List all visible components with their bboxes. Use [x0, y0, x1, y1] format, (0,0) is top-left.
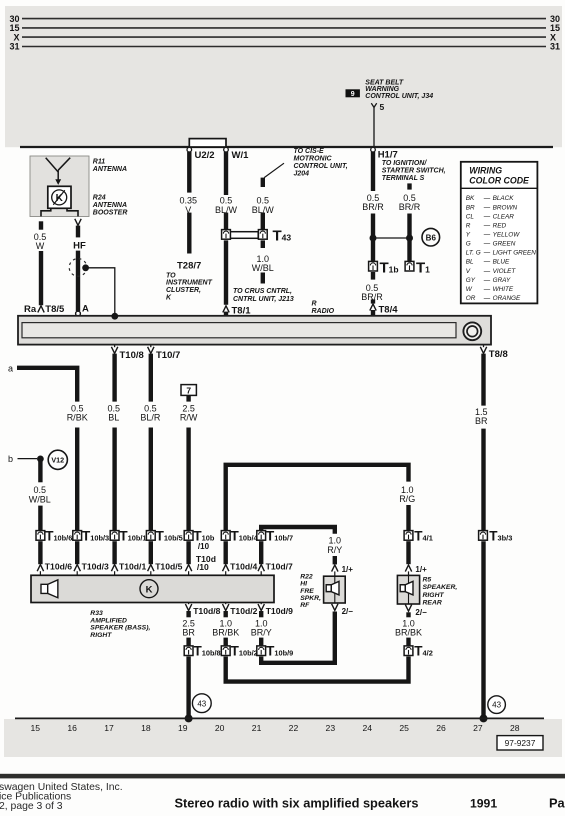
ground ref circle 43 left [192, 694, 211, 713]
power bus line X [22, 36, 546, 38]
wire W/1 upper 0.5 BL/W [224, 152, 228, 195]
svg-text:STARTER SWITCH,: STARTER SWITCH, [382, 168, 446, 175]
node B6 circle [422, 228, 440, 246]
svg-text:OR: OR [466, 295, 476, 302]
connector T10b/10 square [184, 531, 193, 541]
svg-text:28: 28 [510, 723, 520, 733]
svg-text:BR: BR [475, 416, 488, 426]
svg-text:BR/BK: BR/BK [395, 628, 422, 638]
svg-text:BLUE: BLUE [493, 259, 510, 266]
node H1/7 circle [371, 147, 376, 152]
connector bar T43 [230, 232, 258, 239]
wire 1.5 BR lower [481, 541, 485, 716]
wire rows T10b to T10d [40, 541, 261, 564]
svg-text:/10: /10 [197, 562, 209, 572]
ground dot 19 [185, 714, 193, 722]
svg-text:CONTROL UNIT,: CONTROL UNIT, [294, 163, 348, 170]
svg-text:b: b [8, 454, 13, 464]
terminal chevron R22 1/+ [332, 565, 338, 572]
connector T10b/8 square [184, 646, 193, 656]
R22 speaker icon [326, 585, 331, 592]
seat belt warning control unit J34 ref box 9 [346, 89, 360, 98]
svg-text:Ra: Ra [24, 304, 37, 315]
wire into R5 [408, 571, 410, 575]
wire HF upper [76, 226, 80, 238]
wire W/1 lower [224, 240, 228, 304]
svg-text:R/G: R/G [399, 494, 415, 504]
svg-text:18: 18 [141, 723, 151, 733]
svg-text:a: a [8, 364, 13, 374]
wire 1.5 BR mid [481, 429, 485, 531]
junction dot at radio case [111, 313, 118, 320]
R5 speaker icon [400, 585, 405, 592]
wire 1.0 BR/Y lower [259, 638, 263, 646]
ground wire to track 19 [186, 657, 190, 717]
label T10d/10 [196, 554, 216, 572]
svg-text:—: — [483, 213, 491, 220]
wire CIS-E mid [261, 213, 265, 230]
bottom gray band [4, 719, 562, 757]
note to ignition starter switch [382, 160, 446, 182]
legend header [469, 165, 530, 185]
connector T10b/1 square [110, 531, 119, 541]
svg-text:31: 31 [9, 42, 19, 52]
svg-text:—: — [483, 231, 491, 238]
junction dot col2 [406, 235, 413, 242]
wire W/BL upper [38, 459, 42, 482]
connector T4/1 square [404, 531, 413, 541]
svg-text:T10d/8: T10d/8 [193, 606, 220, 616]
wire b horizontal [18, 458, 38, 460]
svg-text:1/+: 1/+ [415, 565, 427, 574]
booster legs [41, 208, 51, 216]
svg-text:T10/7: T10/7 [156, 350, 180, 361]
terminal T8/8 [480, 346, 486, 354]
svg-text:H1/7: H1/7 [378, 150, 398, 161]
svg-text:T8/8: T8/8 [489, 349, 508, 360]
wire U2/2 lower [187, 213, 191, 254]
connector T10b/5 square [146, 531, 155, 541]
wire loop T10b/2 to T4/2 [226, 657, 409, 682]
svg-text:R11: R11 [93, 158, 105, 165]
HF top chevron [75, 219, 81, 226]
track numbers [31, 723, 520, 733]
wire loop R/Y [261, 527, 335, 534]
svg-text:9: 9 [351, 91, 355, 98]
speaker R5 box [397, 575, 419, 604]
svg-text:K: K [56, 193, 64, 204]
svg-text:MOTRONIC: MOTRONIC [294, 156, 333, 163]
R22 through line [334, 576, 336, 603]
label J34 text [365, 79, 433, 100]
svg-text:97-9237: 97-9237 [505, 738, 536, 748]
svg-text:26: 26 [436, 723, 446, 733]
connector bracket U2 above line [189, 139, 226, 147]
svg-text:W/BL: W/BL [29, 494, 51, 504]
connector T10b/3 square [73, 531, 82, 541]
svg-text:ANTENNA: ANTENNA [92, 202, 127, 209]
wire above T4/2 [406, 638, 410, 646]
svg-text:BR: BR [182, 628, 195, 638]
wire 0.5 BL upper [112, 354, 116, 402]
radio knob outer circle [463, 322, 481, 340]
label R RADIO [312, 301, 335, 316]
svg-text:2, page 3 of 3: 2, page 3 of 3 [0, 801, 63, 812]
svg-text:GREEN: GREEN [493, 241, 516, 248]
wire stub to J213 [261, 273, 265, 284]
svg-text:Stereo radio with six amplifie: Stereo radio with six amplified speakers [175, 796, 419, 811]
svg-text:V12: V12 [51, 456, 64, 465]
wire J34 pin5 down [373, 107, 375, 146]
wire U2/2 upper 0.35 V [187, 152, 191, 193]
wire W/BL lower [38, 506, 42, 531]
svg-text:R33: R33 [90, 610, 103, 617]
svg-text:W: W [36, 241, 45, 251]
wire T8/1 stub [224, 312, 228, 316]
wire 0.5 BL/R lower [149, 428, 153, 531]
svg-text:BR: BR [466, 204, 475, 211]
svg-text:TO CRUS CNTRL,: TO CRUS CNTRL, [233, 288, 292, 295]
connector T10b/4 square [221, 531, 230, 541]
svg-text:—: — [483, 241, 491, 248]
svg-text:—: — [483, 250, 491, 257]
svg-text:21: 21 [252, 723, 262, 733]
node U2/2 circle [187, 147, 192, 152]
svg-text:W: W [466, 286, 473, 293]
svg-text:T10/8: T10/8 [120, 350, 144, 361]
svg-text:BR/R: BR/R [399, 202, 421, 212]
junction dot b [37, 456, 44, 463]
svg-text:T10d/6: T10d/6 [45, 561, 72, 571]
svg-text:R24: R24 [93, 194, 106, 201]
note to CIS-E Motronic [294, 148, 348, 178]
terminal chevron T8/4 [370, 304, 376, 311]
main separator line [20, 146, 553, 148]
terminal chevron R22 2/- [332, 604, 338, 611]
svg-text:V: V [466, 268, 471, 275]
junction dot col1 [370, 235, 377, 242]
speaker R22 box [324, 576, 346, 603]
svg-text:TO CIS-E: TO CIS-E [294, 148, 325, 155]
svg-text:BL: BL [466, 259, 474, 266]
fuse box 7 [181, 385, 196, 396]
svg-text:17: 17 [104, 723, 114, 733]
svg-text:16: 16 [67, 723, 77, 733]
svg-text:HF: HF [73, 240, 86, 251]
svg-text:G: G [466, 241, 471, 248]
svg-text:TO: TO [166, 272, 176, 279]
wire T8/4 stub [371, 310, 375, 315]
svg-text:BL: BL [108, 413, 119, 423]
svg-text:Pa: Pa [549, 796, 565, 811]
svg-text:COLOR CODE: COLOR CODE [469, 176, 530, 186]
terminal chevron R5 1/+ [405, 565, 411, 572]
svg-text:31: 31 [550, 42, 560, 52]
wire into R22 [334, 571, 336, 576]
svg-text:RIGHT: RIGHT [90, 632, 112, 639]
terminal chevron R5 2/- [405, 605, 411, 612]
wire 0.5 BL lower [112, 428, 116, 531]
svg-text:22: 22 [289, 723, 299, 733]
wire R/G lower [406, 505, 410, 531]
svg-text:RADIO: RADIO [312, 308, 335, 315]
connector T10b/9 square [257, 646, 266, 656]
svg-text:A: A [82, 304, 89, 315]
terminal chevron T8/5 [38, 306, 44, 313]
svg-text:R/BK: R/BK [67, 413, 88, 423]
svg-text:U2/2: U2/2 [195, 150, 215, 161]
svg-text:—: — [483, 286, 491, 293]
power bus line 15 [22, 27, 546, 29]
wire 2.5 R/W lower [186, 428, 190, 531]
svg-text:RIGHT: RIGHT [423, 592, 445, 599]
wire CIS-E stub [261, 178, 265, 187]
amp top terminals T10d [37, 565, 264, 576]
ground ref circle 43 right [488, 696, 506, 714]
svg-text:SPEAKER,: SPEAKER, [423, 584, 458, 591]
wire below T1b [371, 272, 375, 280]
svg-text:VIOLET: VIOLET [493, 268, 517, 275]
power bus line 31 [22, 46, 546, 48]
connector T1 square [405, 261, 414, 271]
label R24 ANTENNA BOOSTER [92, 194, 128, 216]
svg-text:CL: CL [466, 213, 475, 220]
connector T1b square [369, 261, 378, 271]
wire to T8/4 [371, 299, 375, 303]
R33 K circle [140, 580, 158, 598]
connector T10b/7 square [257, 531, 266, 541]
svg-text:—: — [483, 259, 491, 266]
svg-text:1/+: 1/+ [342, 565, 354, 574]
label R11 ANTENNA [92, 158, 127, 173]
svg-text:ORANGE: ORANGE [493, 295, 521, 302]
svg-text:SPKR,: SPKR, [300, 595, 321, 602]
svg-text:T10d/9: T10d/9 [266, 606, 293, 616]
legend divider [461, 187, 538, 189]
svg-text:25: 25 [399, 723, 409, 733]
svg-text:BR/Y: BR/Y [251, 628, 272, 638]
wire T4/1 to R5 [406, 541, 410, 564]
connector T10b/2 square [221, 646, 230, 656]
node V12 circle [48, 450, 67, 469]
connector T3b/3 square [479, 531, 488, 541]
wire 0.5 BL/R upper [149, 354, 153, 402]
svg-text:BOOSTER: BOOSTER [93, 209, 128, 216]
diagonal leader to J204 [264, 163, 284, 177]
svg-text:B6: B6 [426, 233, 437, 242]
svg-text:23: 23 [326, 723, 336, 733]
svg-text:43: 43 [492, 701, 501, 710]
svg-text:5: 5 [380, 102, 385, 112]
R33 speaker icon [41, 584, 48, 593]
booster K circle [52, 190, 67, 205]
wire below R5 [406, 612, 410, 617]
wire a horizontal to R/BK column [17, 368, 77, 402]
junction dot on HF branch [82, 264, 89, 271]
terminal T10/8 [111, 346, 117, 354]
terminal T10/7 [148, 346, 154, 354]
booster slash [53, 190, 65, 205]
svg-text:R: R [466, 222, 471, 229]
svg-text:RF: RF [300, 602, 310, 609]
node A open circle [76, 311, 81, 316]
svg-text:T10d/4: T10d/4 [230, 561, 257, 571]
radio knob inner circle [467, 326, 478, 337]
connector T10b/6 square [36, 531, 45, 541]
wire col1 mid [371, 214, 375, 262]
pin 5 fork [371, 103, 376, 107]
svg-text:CONTROL UNIT, J34: CONTROL UNIT, J34 [365, 93, 433, 100]
svg-text:SPEAKER (BASS),: SPEAKER (BASS), [90, 625, 150, 632]
R5 through line [408, 575, 410, 604]
svg-text:BLACK: BLACK [493, 195, 515, 202]
svg-text:—: — [483, 277, 491, 284]
wire 1.0 BR/Y stub [259, 611, 263, 617]
svg-text:WARNING: WARNING [365, 86, 399, 93]
svg-text:1991: 1991 [470, 797, 497, 811]
svg-text:—: — [483, 268, 491, 275]
svg-text:R/Y: R/Y [327, 545, 342, 555]
radio inner panel [22, 323, 456, 338]
node W/1 circle [224, 147, 229, 152]
svg-text:27: 27 [473, 723, 483, 733]
svg-text:LT. G: LT. G [466, 250, 481, 257]
connector T43 left square [222, 230, 231, 240]
antenna symbol [46, 158, 70, 184]
connector T43 right square [258, 230, 267, 240]
wire 0.5 W lower [39, 251, 43, 305]
radio R outer case [18, 316, 491, 345]
svg-text:CLUSTER,: CLUSTER, [166, 287, 201, 294]
svg-text:RED: RED [493, 222, 507, 229]
svg-text:WHITE: WHITE [493, 286, 514, 293]
svg-text:24: 24 [362, 723, 372, 733]
note to instrument cluster [166, 272, 213, 301]
wire W/1 mid [224, 213, 228, 230]
label R33 text [89, 610, 150, 639]
branch wire to radio case [86, 268, 115, 315]
wire R/BK lower [75, 428, 79, 531]
diagram number box 97-9237 [497, 736, 543, 750]
svg-text:43: 43 [197, 699, 206, 708]
svg-text:J204: J204 [294, 171, 310, 178]
svg-text:BROWN: BROWN [493, 204, 518, 211]
power bus line 30 [22, 18, 546, 20]
wire 2.5 BR stub [186, 611, 190, 617]
wire loop R22 to T10b/9 [261, 612, 335, 663]
svg-text:W/1: W/1 [232, 150, 250, 161]
wire 1.5 BR upper [481, 354, 485, 406]
junction link wire [373, 237, 410, 239]
amplified speaker R33 box [31, 575, 274, 602]
svg-text:T8/4: T8/4 [379, 304, 399, 315]
svg-text:TO IGNITION/: TO IGNITION/ [382, 160, 428, 167]
svg-text:R/W: R/W [180, 413, 198, 423]
wire 1.0 BR/BK stub [223, 611, 227, 617]
svg-text:K: K [146, 584, 153, 595]
terminal chevron T8/1 [223, 306, 229, 313]
svg-text:T10d/1: T10d/1 [119, 561, 146, 571]
svg-text:—: — [483, 222, 491, 229]
note to cruise control unit [233, 288, 294, 303]
label R5 text [423, 577, 458, 607]
svg-text:R22: R22 [300, 573, 313, 580]
svg-text:/10: /10 [198, 542, 210, 551]
svg-text:19: 19 [178, 723, 188, 733]
svg-text:Y: Y [466, 231, 471, 238]
booster legs right [67, 208, 78, 216]
footer imprint [0, 782, 123, 812]
wire 2.5 R/W upper [186, 395, 190, 401]
svg-text:ANTENNA: ANTENNA [92, 166, 127, 173]
svg-text:T10d/7: T10d/7 [266, 561, 293, 571]
svg-text:BR/BK: BR/BK [212, 628, 239, 638]
svg-text:T28/7: T28/7 [177, 260, 201, 271]
svg-text:INSTRUMENT: INSTRUMENT [166, 280, 213, 287]
top gray band [5, 6, 562, 147]
legend rows [466, 195, 537, 302]
wire col2 mid [407, 214, 411, 262]
bottom track line [15, 717, 544, 719]
svg-text:20: 20 [215, 723, 225, 733]
svg-text:W/BL: W/BL [252, 263, 274, 273]
label R22 text [300, 573, 321, 609]
wire loop R/G [226, 465, 409, 531]
svg-text:YELLOW: YELLOW [493, 231, 521, 238]
wire R/Y lower [333, 556, 337, 564]
wire CIS-E below T43 [261, 240, 265, 248]
wiring color code box [461, 162, 538, 304]
svg-text:GY: GY [466, 277, 476, 284]
svg-text:2/−: 2/− [415, 608, 427, 617]
svg-text:R5: R5 [423, 577, 432, 584]
wire HF lower [76, 251, 80, 311]
ignition stub col2 [407, 183, 411, 189]
svg-text:T8/5: T8/5 [45, 304, 65, 315]
connector T4/2 square [404, 646, 413, 656]
svg-text:GRAY: GRAY [493, 277, 511, 284]
ground dot 27 [480, 714, 488, 722]
svg-text:T10d/2: T10d/2 [230, 606, 257, 616]
svg-text:T10d/3: T10d/3 [82, 561, 109, 571]
svg-text:TERMINAL S: TERMINAL S [382, 175, 425, 182]
svg-text:BK: BK [466, 195, 475, 202]
svg-text:—: — [483, 295, 491, 302]
wire 0.5 W stub [39, 221, 43, 229]
svg-text:AMPLIFIED: AMPLIFIED [89, 617, 127, 624]
svg-text:BL/R: BL/R [140, 413, 161, 423]
svg-text:2/−: 2/− [342, 607, 354, 616]
svg-text:HI: HI [300, 581, 307, 588]
svg-text:15: 15 [31, 723, 41, 733]
wire H1/7 upper 0.5 BR/R [371, 152, 375, 191]
svg-text:BR/R: BR/R [362, 202, 384, 212]
footer rule [0, 774, 565, 779]
svg-text:CLEAR: CLEAR [493, 213, 515, 220]
antenna booster R24 amplifier box [48, 186, 71, 208]
svg-text:WIRING: WIRING [469, 165, 502, 175]
svg-text:FRE: FRE [300, 588, 314, 595]
shield dashed circle [69, 259, 87, 277]
svg-text:7: 7 [186, 385, 191, 395]
svg-text:—: — [483, 204, 491, 211]
svg-text:CNTRL UNIT, J213: CNTRL UNIT, J213 [233, 296, 294, 303]
wire 1.0 BR/BK lower [223, 638, 227, 646]
svg-text:—: — [483, 195, 491, 202]
wire 2.5 BR lower [186, 638, 190, 646]
svg-text:REAR: REAR [423, 599, 442, 606]
antenna box R11 [30, 156, 89, 217]
